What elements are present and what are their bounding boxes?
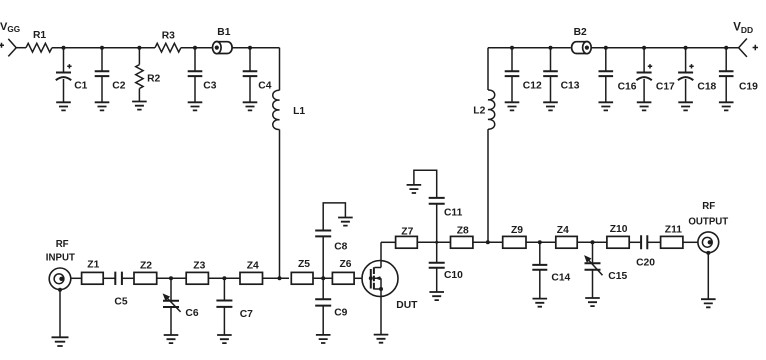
wire bbox=[313, 277, 332, 279]
node bbox=[248, 46, 252, 50]
svg-text:C14: C14 bbox=[551, 272, 570, 283]
node bbox=[169, 276, 173, 280]
transmission line Z3 bbox=[186, 260, 208, 284]
svg-text:C17: C17 bbox=[656, 82, 675, 93]
svg-text:C4: C4 bbox=[258, 80, 271, 91]
node bbox=[604, 46, 608, 50]
transmission line Z6 bbox=[332, 259, 354, 284]
transmission line Z5 bbox=[291, 259, 313, 284]
svg-text:Z7: Z7 bbox=[401, 227, 413, 238]
svg-text:C12: C12 bbox=[523, 80, 542, 91]
transistor DUT (MOSFET) bbox=[362, 242, 418, 334]
svg-text:C15: C15 bbox=[608, 271, 627, 282]
wire bbox=[122, 277, 134, 279]
svg-text:Z4: Z4 bbox=[247, 260, 259, 271]
ground bbox=[407, 185, 422, 193]
wire bbox=[208, 277, 240, 279]
transmission line Z11 bbox=[661, 225, 683, 249]
connector RF INPUT bbox=[49, 268, 71, 292]
capacitor C7 bbox=[216, 278, 253, 335]
svg-text:C2: C2 bbox=[112, 81, 125, 92]
node bbox=[435, 241, 438, 244]
svg-text:B1: B1 bbox=[217, 27, 230, 38]
svg-text:C6: C6 bbox=[185, 308, 198, 319]
ground bbox=[429, 292, 444, 300]
ground bbox=[217, 335, 232, 343]
node bbox=[193, 46, 197, 50]
ferrite bead B2 bbox=[572, 27, 592, 54]
svg-text:L1: L1 bbox=[293, 106, 305, 117]
svg-text:R3: R3 bbox=[162, 30, 175, 41]
node bbox=[642, 46, 646, 50]
ground bbox=[701, 299, 716, 307]
connector VDD bbox=[739, 39, 758, 57]
ground bbox=[316, 335, 331, 343]
transmission line Z4 bbox=[240, 260, 263, 284]
node bbox=[62, 46, 66, 50]
wire bbox=[16, 47, 26, 49]
wire bbox=[473, 241, 503, 243]
variable capacitor C6 bbox=[163, 278, 199, 335]
node bbox=[724, 46, 728, 50]
svg-text:DUT: DUT bbox=[396, 300, 418, 311]
capacitor C9 bbox=[315, 278, 347, 335]
capacitor C16 bbox=[599, 48, 637, 103]
svg-text:C11: C11 bbox=[444, 207, 463, 218]
capacitor C18 bbox=[678, 48, 717, 103]
svg-text:Z1: Z1 bbox=[87, 259, 99, 270]
svg-text:Z8: Z8 bbox=[457, 226, 469, 237]
transmission line Z9 bbox=[503, 225, 526, 248]
wire bbox=[157, 277, 187, 279]
node bbox=[278, 276, 282, 280]
capacitor C20 bbox=[636, 235, 655, 268]
svg-text:C7: C7 bbox=[240, 309, 253, 320]
node bbox=[549, 46, 553, 50]
ground bbox=[188, 102, 203, 110]
ground bbox=[678, 102, 693, 110]
wire bbox=[354, 277, 362, 279]
wire bbox=[487, 129, 489, 242]
wire bbox=[629, 241, 641, 243]
svg-text:OUTPUT: OUTPUT bbox=[688, 216, 728, 227]
ferrite bead B1 bbox=[213, 27, 233, 54]
wire bbox=[683, 241, 698, 243]
wire bbox=[591, 47, 738, 49]
ground bbox=[543, 102, 558, 110]
svg-text:L2: L2 bbox=[473, 106, 485, 117]
svg-text:Z9: Z9 bbox=[511, 225, 523, 236]
variable capacitor C15 bbox=[584, 242, 627, 298]
svg-text:C19: C19 bbox=[739, 82, 758, 93]
capacitor C8 bbox=[315, 203, 347, 278]
svg-text:Z11: Z11 bbox=[665, 225, 682, 236]
svg-text:RF: RF bbox=[702, 201, 715, 212]
svg-text:C3: C3 bbox=[203, 80, 216, 91]
transmission line Z4 (output) bbox=[556, 225, 577, 248]
svg-text:INPUT: INPUT bbox=[46, 253, 75, 264]
wire bbox=[71, 277, 82, 279]
svg-text:VDD: VDD bbox=[733, 22, 753, 35]
capacitor C1 bbox=[56, 48, 88, 103]
node bbox=[684, 46, 688, 50]
svg-text:Z10: Z10 bbox=[610, 224, 628, 235]
ground bbox=[505, 102, 520, 110]
svg-text:Z6: Z6 bbox=[340, 259, 352, 270]
svg-text:C1: C1 bbox=[74, 80, 87, 91]
wire bbox=[232, 47, 279, 49]
ground bbox=[533, 299, 548, 307]
node bbox=[222, 276, 226, 280]
svg-text:C10: C10 bbox=[444, 270, 463, 281]
capacitor C2 bbox=[95, 48, 126, 103]
wire bbox=[279, 48, 281, 91]
capacitor C12 bbox=[505, 48, 542, 103]
svg-text:R2: R2 bbox=[147, 74, 160, 85]
transmission line Z1 bbox=[82, 259, 104, 284]
svg-text:RF: RF bbox=[56, 239, 69, 250]
svg-text:C8: C8 bbox=[334, 241, 347, 252]
ground bbox=[599, 102, 614, 110]
ground bbox=[374, 335, 389, 343]
svg-text:C16: C16 bbox=[618, 82, 637, 93]
svg-text:VGG: VGG bbox=[0, 21, 20, 34]
wire bbox=[181, 47, 213, 49]
svg-text:C13: C13 bbox=[561, 80, 580, 91]
node bbox=[137, 46, 141, 50]
wire bbox=[59, 290, 61, 337]
wire bbox=[263, 277, 290, 279]
node bbox=[538, 240, 542, 244]
wire bbox=[279, 130, 281, 279]
ground bbox=[95, 102, 110, 110]
node bbox=[321, 276, 325, 280]
capacitor C13 bbox=[543, 48, 580, 103]
wire bbox=[488, 47, 571, 49]
ground bbox=[338, 218, 353, 226]
wire bbox=[417, 241, 450, 243]
svg-text:Z5: Z5 bbox=[298, 259, 310, 270]
wire bbox=[647, 241, 660, 243]
svg-text:Z3: Z3 bbox=[193, 260, 205, 271]
svg-text:B2: B2 bbox=[574, 27, 587, 38]
connector RF OUTPUT bbox=[698, 232, 719, 255]
ground bbox=[243, 102, 258, 110]
ground bbox=[637, 102, 652, 110]
ground bbox=[585, 298, 600, 306]
wire bbox=[577, 241, 607, 243]
wire bbox=[707, 253, 709, 299]
ground bbox=[132, 102, 147, 110]
ground bbox=[56, 102, 71, 110]
inductor L2 bbox=[473, 90, 494, 129]
capacitor C10 bbox=[429, 242, 463, 292]
capacitor C3 bbox=[188, 48, 217, 103]
ground bbox=[52, 337, 69, 346]
transmission line Z7 bbox=[396, 227, 418, 249]
transmission line Z2 bbox=[134, 260, 157, 284]
node bbox=[591, 240, 595, 244]
inductor L1 bbox=[273, 90, 306, 129]
capacitor C19 bbox=[719, 48, 758, 103]
connector VGG bbox=[0, 39, 16, 57]
node bbox=[100, 46, 104, 50]
wire bbox=[103, 277, 115, 279]
node bbox=[510, 46, 514, 50]
transmission line Z8 bbox=[451, 226, 473, 249]
node bbox=[486, 240, 490, 244]
svg-text:C20: C20 bbox=[636, 258, 655, 269]
capacitor C17 bbox=[636, 48, 675, 103]
svg-text:Z4: Z4 bbox=[557, 225, 569, 236]
ground bbox=[164, 335, 179, 343]
resistor R2 bbox=[136, 48, 161, 102]
svg-text:C9: C9 bbox=[334, 307, 347, 318]
resistor R1 bbox=[26, 30, 52, 52]
svg-text:R1: R1 bbox=[33, 30, 46, 41]
ground bbox=[719, 102, 734, 110]
wire bbox=[381, 241, 396, 243]
resistor R3 bbox=[155, 30, 181, 52]
wire bbox=[526, 241, 556, 243]
svg-text:Z2: Z2 bbox=[140, 260, 152, 271]
wire bbox=[52, 47, 155, 49]
capacitor C14 bbox=[532, 242, 570, 298]
transmission line Z10 bbox=[607, 224, 629, 248]
capacitor C11 bbox=[414, 170, 463, 242]
svg-text:C5: C5 bbox=[114, 297, 127, 308]
svg-text:C18: C18 bbox=[697, 82, 716, 93]
capacitor C5 bbox=[114, 272, 127, 308]
wire bbox=[487, 48, 489, 90]
capacitor C4 bbox=[243, 48, 272, 103]
